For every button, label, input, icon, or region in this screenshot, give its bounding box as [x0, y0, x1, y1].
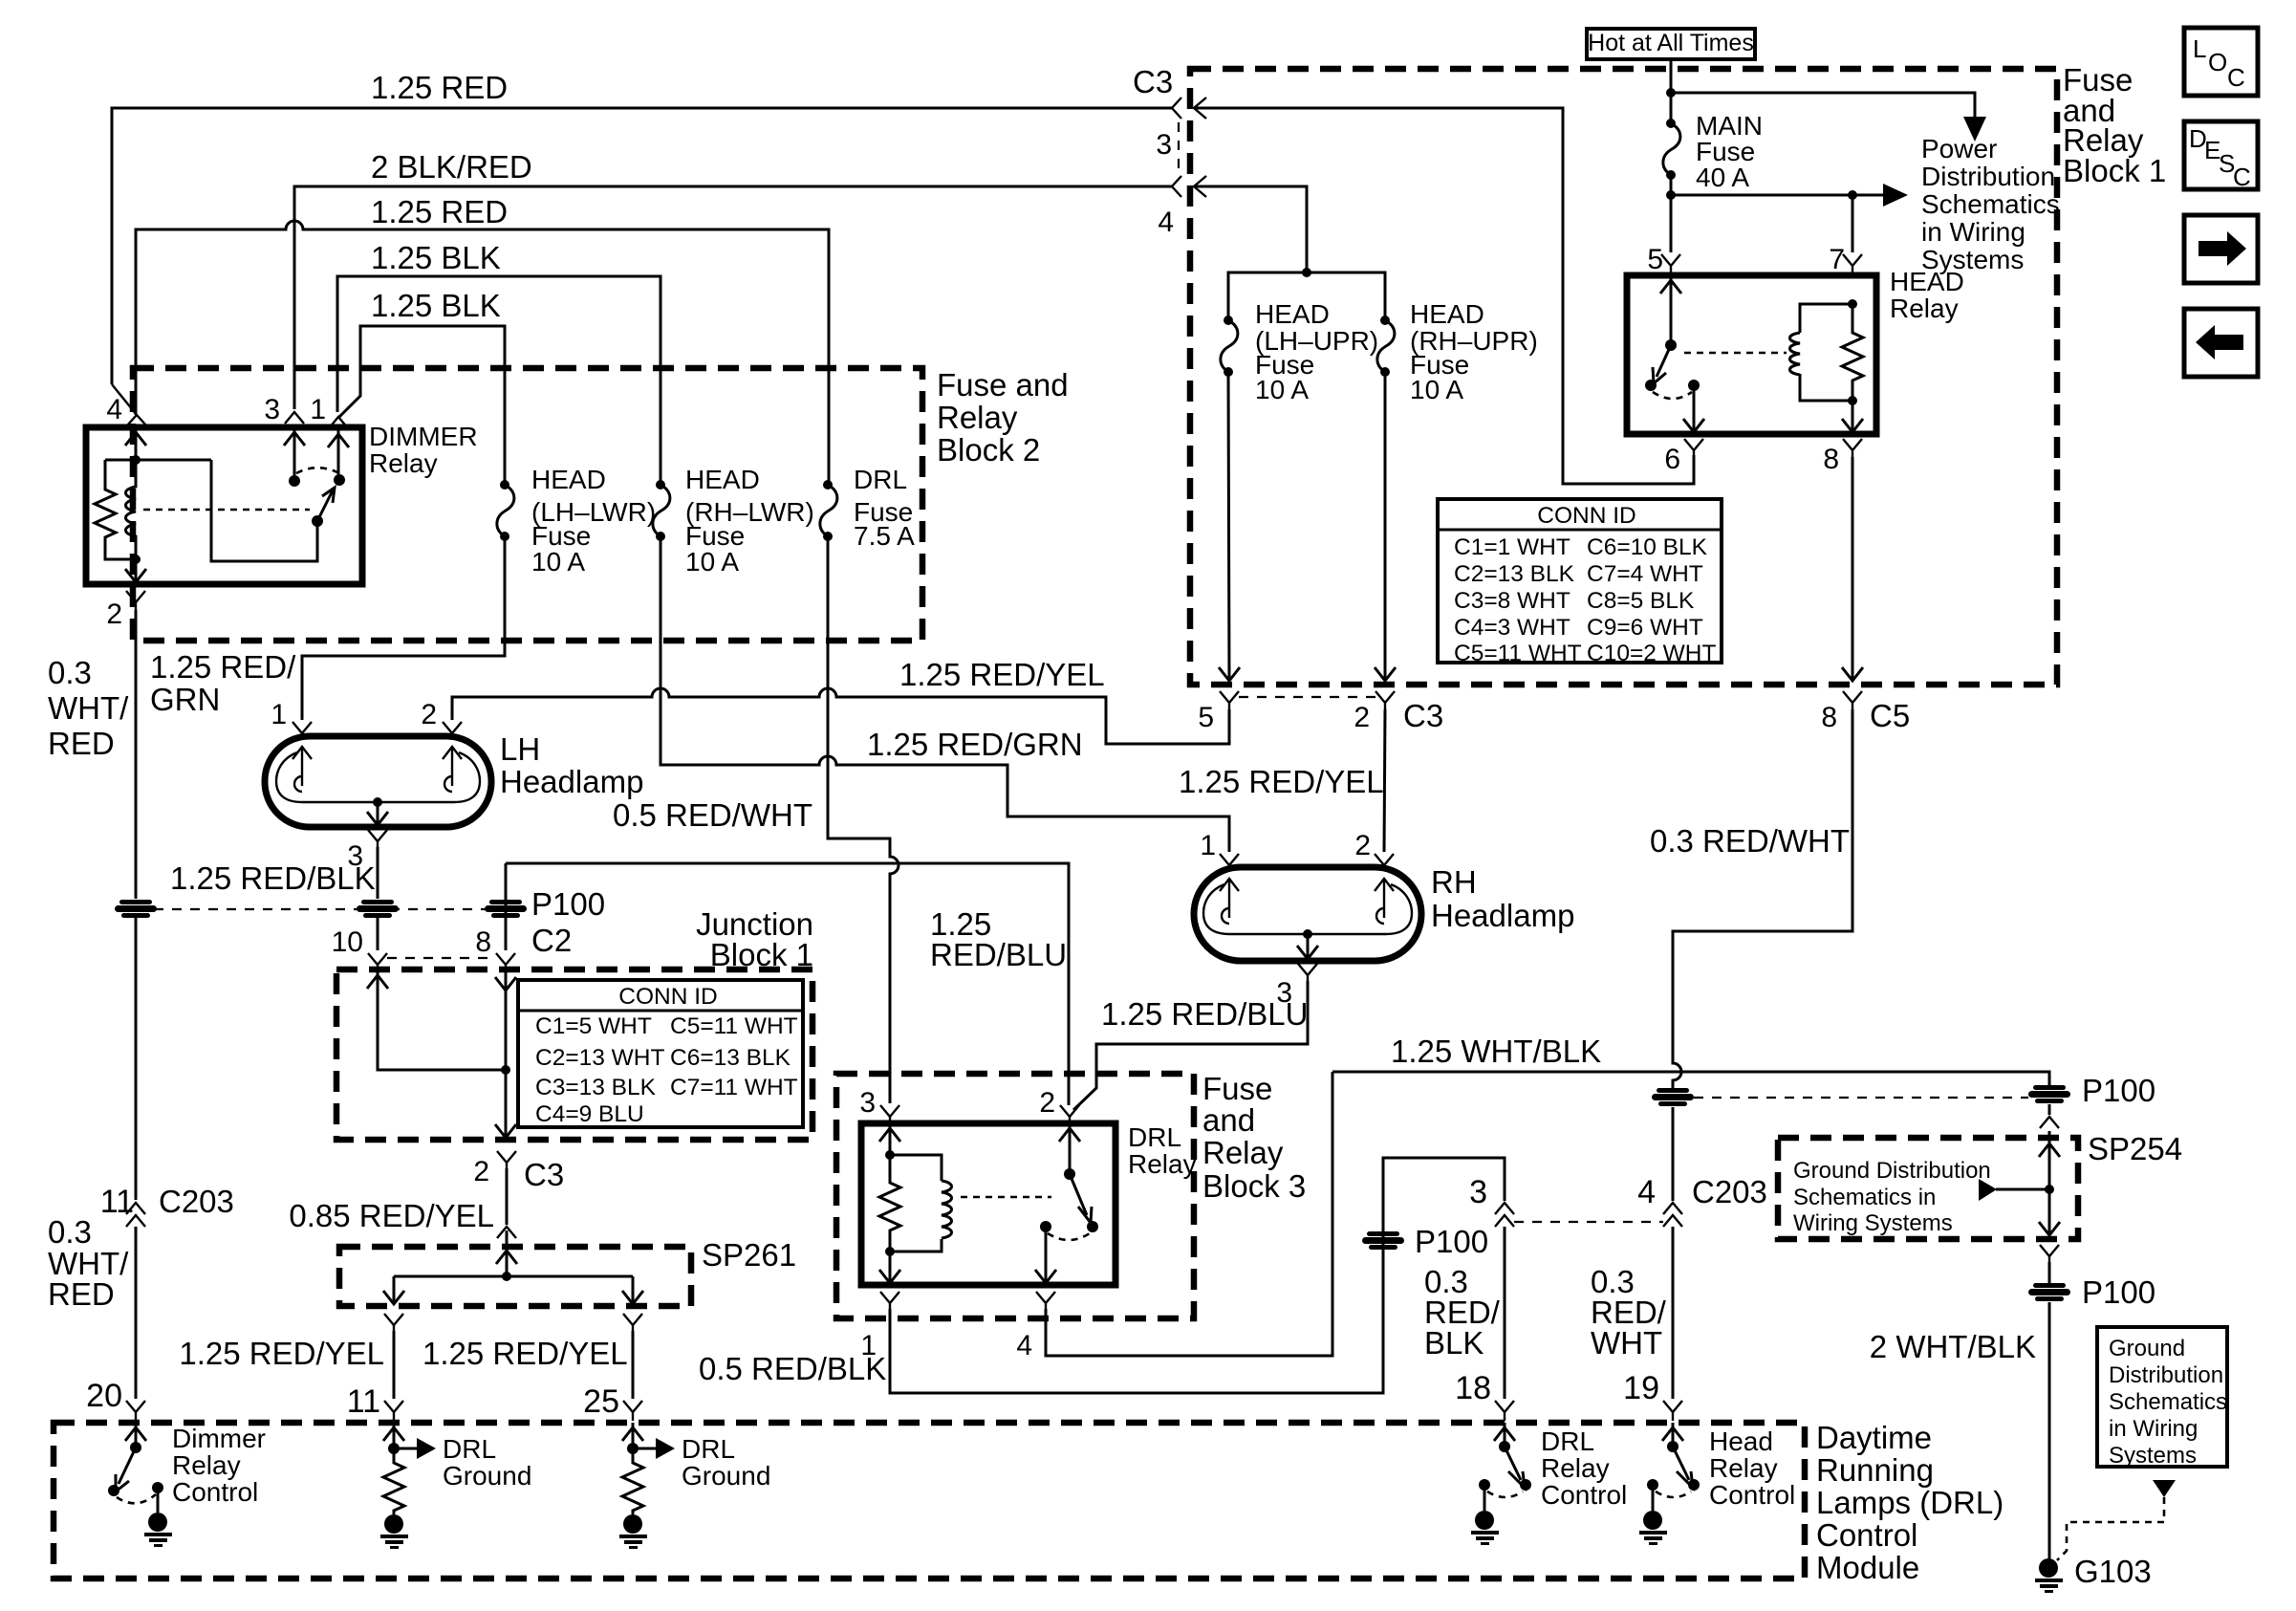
- svg-text:2: 2: [1354, 830, 1371, 861]
- connector C3 alignment dashes: [1178, 122, 1180, 172]
- RH headlamp pin1 female connector: [1220, 854, 1239, 870]
- svg-text:C9=6 WHT: C9=6 WHT: [1587, 615, 1703, 641]
- ground head relay control: [1639, 1511, 1667, 1545]
- dimmer relay resistor R: [95, 460, 136, 559]
- wire into SP261: [506, 1230, 509, 1276]
- wire 1.25 WHT/BLK DRL relay pin4 riser: [1046, 1072, 1332, 1356]
- wire W2 2 BLK/RED horizontal: [294, 186, 1172, 409]
- svg-text:C8=5 BLK: C8=5 BLK: [1587, 588, 1695, 614]
- node hot feed junction: [1666, 88, 1676, 98]
- head relay fixed contact dot: [1645, 380, 1657, 391]
- module head relay control pivot dot: [1667, 1441, 1679, 1452]
- svg-text:Relay: Relay: [1128, 1149, 1197, 1179]
- wire 0.3 WHT/RED dimmer pin2 down left column: [135, 610, 138, 899]
- svg-text:HEAD: HEAD: [1255, 299, 1330, 329]
- splice SP261 entry chevron: [497, 1227, 516, 1238]
- module head relay control fixed dot: [1647, 1479, 1658, 1491]
- svg-text:C: C: [2227, 63, 2245, 92]
- LH headlamp pin2 female connector: [443, 722, 462, 738]
- wire RED/WHT below grommet to C203 pin4: [1672, 1107, 1675, 1201]
- grommet P100 right on pin8 C2 wire: [485, 900, 527, 918]
- svg-text:Schematics: Schematics: [1921, 189, 2060, 219]
- svg-text:0.3: 0.3: [48, 655, 92, 690]
- head relay pin6 female connector: [1684, 439, 1703, 457]
- junction block internal wire pin10: [367, 969, 507, 1070]
- SP261 junction dot: [502, 1272, 511, 1281]
- RH headlamp common node: [1303, 929, 1312, 939]
- svg-text:C10=2 WHT: C10=2 WHT: [1587, 641, 1717, 666]
- svg-text:Hot at All Times: Hot at All Times: [1588, 30, 1754, 56]
- resistor pin25 to ground: [622, 1448, 643, 1514]
- head relay contact dashed arc: [1653, 392, 1692, 399]
- module DRL relay control moving dot: [1520, 1479, 1531, 1491]
- svg-text:10 A: 10 A: [531, 547, 585, 577]
- svg-text:DRL: DRL: [1128, 1122, 1181, 1152]
- grommet P100 on RED/WHT drop: [1652, 1088, 1694, 1106]
- module pin20 entry arrow: [125, 1423, 146, 1448]
- svg-text:P100: P100: [2082, 1073, 2155, 1108]
- Fuse and Relay Block 3 dashed box: [836, 1074, 1194, 1318]
- svg-text:C2=13 WHT: C2=13 WHT: [535, 1045, 665, 1071]
- svg-text:and: and: [1202, 1102, 1255, 1138]
- svg-text:DRL: DRL: [443, 1434, 496, 1464]
- ground DRL pin25: [619, 1514, 647, 1549]
- svg-text:HEAD: HEAD: [1410, 299, 1484, 329]
- wire main output to right arrow: [1671, 194, 1885, 197]
- svg-text:3: 3: [1156, 129, 1172, 161]
- svg-text:Relay: Relay: [937, 400, 1018, 435]
- LH headlamp filament arrows: [292, 747, 462, 786]
- svg-text:1.25 RED/YEL: 1.25 RED/YEL: [179, 1336, 384, 1371]
- svg-text:C6=10 BLK: C6=10 BLK: [1587, 534, 1708, 560]
- head relay mechanical linkage dashed: [1684, 352, 1787, 355]
- svg-text:2 WHT/BLK: 2 WHT/BLK: [1870, 1329, 2036, 1364]
- head relay coil L: [1790, 333, 1801, 375]
- svg-text:4: 4: [1158, 207, 1174, 238]
- svg-text:P100: P100: [531, 886, 605, 922]
- svg-text:C5=11 WHT: C5=11 WHT: [670, 1013, 798, 1039]
- SP254 entry arrow: [2039, 1143, 2060, 1157]
- svg-text:0.3: 0.3: [48, 1214, 92, 1250]
- svg-text:Block 2: Block 2: [937, 432, 1040, 468]
- head relay pin8 female connector: [1843, 439, 1862, 457]
- svg-text:RED: RED: [48, 726, 115, 761]
- connector C203 pin4 chevrons: [1663, 1203, 1682, 1227]
- svg-text:C1=5 WHT: C1=5 WHT: [535, 1013, 652, 1039]
- grommet P100 center on RED/BLK wire: [357, 900, 399, 918]
- dimmer relay switch return path: [211, 460, 317, 561]
- svg-text:C6=13 BLK: C6=13 BLK: [670, 1045, 791, 1071]
- DRL relay U3 box: [861, 1123, 1116, 1285]
- wire W3 1.25 RED with hop over pin3 wire: [136, 221, 829, 485]
- svg-text:CONN ID: CONN ID: [618, 984, 717, 1010]
- wire 1.25 RED/YEL LH pin2 to C3 pin5: [452, 688, 1229, 744]
- module head relay control ground wire: [1652, 1485, 1655, 1511]
- fuse bus from 2 BLK/RED: [1302, 268, 1311, 277]
- svg-text:Ground Distribution: Ground Distribution: [1793, 1158, 1991, 1184]
- svg-text:C: C: [2233, 163, 2251, 191]
- svg-text:Head: Head: [1709, 1426, 1773, 1456]
- Hot at All Times box: [1587, 29, 1755, 59]
- svg-text:DIMMER: DIMMER: [369, 422, 478, 451]
- module pin20 chevron: [126, 1401, 145, 1421]
- CONN ID table block1: [1438, 499, 1722, 666]
- module pin25 chevron: [623, 1401, 642, 1421]
- svg-text:0.3 RED/WHT: 0.3 RED/WHT: [1650, 823, 1850, 859]
- svg-text:DRL: DRL: [682, 1434, 735, 1464]
- wire into SP254: [2048, 1104, 2051, 1189]
- svg-text:Relay: Relay: [172, 1450, 241, 1480]
- svg-text:6: 6: [1664, 444, 1680, 475]
- DRL relay pin2 entry arrow: [1059, 1123, 1080, 1174]
- svg-text:40 A: 40 A: [1696, 163, 1749, 192]
- DRL relay coil branch: [890, 1155, 942, 1252]
- dimmer relay pin 3 contact dot: [289, 475, 300, 487]
- svg-text:Fuse and: Fuse and: [937, 367, 1069, 403]
- svg-text:8: 8: [1823, 444, 1839, 475]
- svg-text:3: 3: [1469, 1174, 1487, 1210]
- dimmer relay pin 2 female connector: [126, 591, 145, 610]
- dimmer relay pin 1 female connector: [329, 417, 348, 428]
- svg-text:5: 5: [1198, 702, 1214, 733]
- svg-text:Schematics: Schematics: [2109, 1389, 2227, 1415]
- svg-text:Headlamp: Headlamp: [500, 764, 643, 799]
- svg-text:P100: P100: [1415, 1224, 1488, 1259]
- dimmer relay pin 4 entry arrow: [125, 427, 146, 460]
- svg-text:1.25 RED/: 1.25 RED/: [150, 649, 296, 685]
- svg-text:CONN ID: CONN ID: [1537, 503, 1635, 529]
- svg-text:Wiring Systems: Wiring Systems: [1793, 1210, 1953, 1236]
- module DRL relay control dashed arc: [1487, 1491, 1523, 1497]
- DRL ground arrow pin25: [633, 1448, 656, 1450]
- svg-text:1.25 RED/BLK: 1.25 RED/BLK: [170, 860, 376, 896]
- svg-text:C4=9 BLU: C4=9 BLU: [535, 1101, 644, 1127]
- module dimmer switch pivot dot: [130, 1442, 141, 1453]
- svg-text:Distribution: Distribution: [1921, 162, 2055, 191]
- svg-text:C3=8 WHT: C3=8 WHT: [1454, 588, 1570, 614]
- svg-text:WHT: WHT: [1591, 1325, 1662, 1361]
- head relay coil branch: [1800, 304, 1852, 401]
- wire RH-UPR fuse output exits block1: [1375, 372, 1396, 681]
- LH headlamp pin3 exit arrow: [367, 802, 388, 825]
- svg-text:5: 5: [1647, 244, 1663, 275]
- svg-text:GRN: GRN: [150, 682, 220, 717]
- svg-text:Dimmer: Dimmer: [172, 1424, 266, 1453]
- svg-text:C7=11 WHT: C7=11 WHT: [670, 1075, 798, 1100]
- svg-text:C5: C5: [1870, 698, 1910, 733]
- svg-text:10 A: 10 A: [685, 547, 739, 577]
- fuse HEAD (RH-LWR) 10A: [653, 480, 670, 541]
- DRL relay pin3 entry arrow: [879, 1123, 900, 1155]
- svg-text:11: 11: [100, 1184, 134, 1220]
- svg-text:Relay: Relay: [1541, 1453, 1610, 1483]
- node main output junction: [1666, 190, 1676, 200]
- module head relay control switch arm: [1673, 1447, 1693, 1488]
- ground DRL pin11: [380, 1514, 408, 1549]
- dimmer relay pin 4 connector: [112, 384, 146, 425]
- SP254 junction dot: [2045, 1185, 2054, 1194]
- wire LH-UPR fuse output exits block1: [1219, 372, 1240, 681]
- fuse DRL 7.5A: [820, 480, 837, 541]
- wire W1 right segment to HEAD relay pin 6: [1197, 108, 1694, 484]
- module pin18 entry arrow: [1494, 1423, 1515, 1447]
- svg-text:7.5 A: 7.5 A: [854, 521, 915, 551]
- head relay resistor R: [1842, 304, 1863, 401]
- svg-text:0.5 RED/BLK: 0.5 RED/BLK: [699, 1351, 886, 1386]
- svg-text:Module: Module: [1816, 1550, 1919, 1585]
- svg-text:P100: P100: [2082, 1274, 2155, 1310]
- svg-text:Running: Running: [1816, 1452, 1934, 1488]
- SP261 internal tee wire: [383, 1276, 643, 1304]
- svg-text:Relay: Relay: [1709, 1453, 1778, 1483]
- dimmer relay pin 3 entry arrow: [284, 427, 305, 481]
- svg-text:C1=1 WHT: C1=1 WHT: [1454, 534, 1570, 560]
- svg-text:Control: Control: [1541, 1480, 1627, 1510]
- svg-text:Ground: Ground: [682, 1461, 770, 1491]
- dimmer relay moving contact dot: [312, 515, 323, 527]
- svg-text:2: 2: [421, 699, 437, 730]
- svg-text:Block 1: Block 1: [2063, 153, 2166, 188]
- RH headlamp filament hooks: [1222, 908, 1384, 924]
- wire 1.25 RED/BLU junction pin8 to DRL relay pin2: [506, 863, 1069, 1105]
- module pin11 entry arrow: [383, 1423, 404, 1448]
- module pin11 node dot: [388, 1443, 400, 1454]
- svg-text:Block 1: Block 1: [710, 937, 813, 972]
- DRL relay moving contact dot: [1087, 1221, 1098, 1232]
- connector C3 pin3 male arrow: [1194, 98, 1206, 119]
- splice SP261 dashed box: [339, 1247, 691, 1306]
- wire 2 WHT/BLK to G103: [2048, 1302, 2051, 1560]
- module DRL relay control switch arm: [1505, 1447, 1525, 1488]
- wire 1.25 WHT/BLK horizontal: [1332, 1072, 2049, 1088]
- svg-text:Lamps (DRL): Lamps (DRL): [1816, 1485, 2004, 1520]
- fuse MAIN 40A: [1663, 119, 1680, 180]
- svg-text:Relay: Relay: [369, 448, 438, 478]
- DRL relay switch pivot dot: [1064, 1168, 1075, 1180]
- dimmer relay pin 2 exit arrow: [125, 559, 146, 582]
- dimmer relay pin 1 contact dot: [334, 474, 345, 486]
- wire 0.5 RED/WHT DRL fuse to DRL relay pin3: [828, 536, 899, 1103]
- module DRL relay control ground wire: [1484, 1485, 1486, 1511]
- svg-text:18: 18: [1455, 1370, 1491, 1406]
- wire W5 1.25 BLK: [338, 326, 505, 485]
- LH headlamp pin1 female connector: [292, 722, 312, 738]
- RH headlamp inner envelope: [1203, 884, 1412, 934]
- svg-text:Schematics in: Schematics in: [1793, 1185, 1936, 1210]
- LH headlamp inner envelope: [276, 752, 480, 802]
- node pin7 tap: [1848, 190, 1857, 200]
- svg-text:11: 11: [347, 1383, 380, 1420]
- grommet P100 on 0.5 RED/BLK riser: [1362, 1231, 1404, 1250]
- svg-text:C3: C3: [524, 1157, 564, 1192]
- DRL relay mechanical linkage dashed: [961, 1196, 1051, 1199]
- svg-text:G103: G103: [2074, 1554, 2152, 1589]
- svg-text:1.25 RED/BLU: 1.25 RED/BLU: [1101, 996, 1308, 1032]
- wire pin8 C2 from corner through P100: [505, 863, 508, 950]
- svg-text:1: 1: [1200, 830, 1216, 861]
- svg-text:C3: C3: [1133, 64, 1173, 99]
- DRL relay pin4 female connector: [1036, 1292, 1055, 1309]
- splice SP254 dashed box: [1778, 1138, 2078, 1239]
- head relay switch pivot dot: [1665, 339, 1677, 351]
- svg-text:SP254: SP254: [2088, 1131, 2182, 1166]
- svg-text:8: 8: [1821, 702, 1837, 733]
- wire to power distribution top arrow: [1671, 93, 1975, 120]
- svg-text:1.25 WHT/BLK: 1.25 WHT/BLK: [1391, 1034, 1601, 1069]
- svg-text:1.25 BLK: 1.25 BLK: [371, 288, 501, 323]
- connector C203 pin3 chevrons: [1495, 1203, 1514, 1227]
- SP254 branch wire with arrow: [1996, 1188, 2049, 1191]
- svg-text:4: 4: [106, 394, 122, 425]
- svg-text:20: 20: [86, 1378, 122, 1414]
- DESC legend box: [2184, 121, 2258, 189]
- wire 1.25 RED/YEL to module pin11: [393, 1331, 396, 1399]
- RH headlamp pin3 female connector: [1298, 964, 1317, 981]
- dimmer relay pin 1 entry arrow: [328, 430, 349, 480]
- svg-text:4: 4: [1637, 1174, 1656, 1210]
- wire RH-UPR output to RH headlamp pin2: [1384, 709, 1385, 852]
- junction block pin10 female connector: [368, 953, 387, 969]
- connector C3 pin3 female chevron: [1172, 98, 1181, 119]
- SP254 entry chevron: [2040, 1117, 2059, 1128]
- dimmer relay U1 box: [86, 427, 362, 584]
- svg-text:in Wiring: in Wiring: [1921, 217, 2025, 247]
- svg-text:O: O: [2208, 48, 2227, 76]
- DRL relay pin1 female connector: [880, 1292, 899, 1309]
- connector C3 pin2 female: [1375, 691, 1395, 709]
- wire 0.85 RED/YEL: [506, 1168, 509, 1225]
- wire 0.3 RED/WHT to module pin19: [1672, 1227, 1675, 1399]
- svg-text:3: 3: [264, 394, 280, 425]
- RH headlamp lamp body: [1194, 867, 1421, 961]
- connector C5 pin8 female: [1843, 691, 1862, 709]
- connector C3 bottom alignment dashes: [1239, 696, 1375, 698]
- module head relay control dashed arc: [1656, 1491, 1691, 1497]
- grommet P100 top right: [2028, 1085, 2070, 1103]
- svg-text:DRL: DRL: [854, 465, 907, 494]
- connector C203 left chevrons: [126, 1203, 145, 1227]
- DRL relay pin2 female connector: [1060, 1105, 1079, 1121]
- svg-text:1.25 RED/YEL: 1.25 RED/YEL: [422, 1336, 628, 1371]
- svg-text:7: 7: [1829, 244, 1845, 275]
- wire MAIN fuse output: [1670, 175, 1673, 252]
- dimmer relay bottom junction: [131, 555, 141, 564]
- SP261 right exit female connector: [623, 1314, 642, 1331]
- wire fuse bus: [1228, 272, 1385, 320]
- dimmer relay coil L: [126, 460, 137, 559]
- module pin19 entry arrow: [1662, 1423, 1683, 1447]
- connector pin2 C3 below junction block: [497, 1151, 516, 1168]
- left arrow legend box: [2184, 309, 2258, 377]
- svg-text:C5=11 WHT: C5=11 WHT: [1454, 641, 1582, 666]
- wire W4 1.25 BLK: [337, 276, 661, 485]
- svg-text:C4=3 WHT: C4=3 WHT: [1454, 615, 1570, 641]
- wire W2 right segment to fuse bus: [1197, 186, 1307, 272]
- junction block pin8 female connector: [496, 953, 515, 969]
- svg-text:Ground: Ground: [443, 1461, 531, 1491]
- svg-text:HEAD: HEAD: [531, 465, 606, 494]
- DRL relay coil L: [942, 1181, 952, 1238]
- svg-text:BLK: BLK: [1424, 1325, 1484, 1361]
- LH headlamp lamp body: [265, 736, 491, 827]
- module dimmer second contact dot: [152, 1482, 163, 1493]
- RH headlamp pin3 exit arrow: [1297, 934, 1318, 959]
- svg-text:Control: Control: [172, 1477, 258, 1507]
- svg-text:1.25 RED/YEL: 1.25 RED/YEL: [899, 657, 1105, 692]
- svg-text:2: 2: [106, 599, 122, 630]
- svg-text:2: 2: [1354, 702, 1370, 733]
- svg-text:1.25 RED/GRN: 1.25 RED/GRN: [867, 727, 1083, 762]
- module pin11 chevron: [384, 1401, 403, 1421]
- resistor pin11 to ground: [383, 1448, 404, 1514]
- svg-text:in Wiring: in Wiring: [2109, 1416, 2198, 1442]
- svg-text:1.25 RED/YEL: 1.25 RED/YEL: [1179, 764, 1384, 799]
- DRL relay coil top node: [885, 1150, 895, 1160]
- svg-text:C2: C2: [531, 923, 572, 958]
- module dimmer switch arm: [116, 1448, 136, 1491]
- fuse HEAD (RH-UPR) 10A: [1377, 316, 1395, 377]
- svg-text:Control: Control: [1816, 1517, 1917, 1553]
- svg-text:1.25 RED: 1.25 RED: [371, 194, 508, 229]
- DRL ground arrow pin11: [394, 1448, 417, 1450]
- connector C203 alignment dashes: [1514, 1221, 1663, 1223]
- dimmer relay top branch wires: [105, 459, 211, 462]
- RH headlamp filament arrows: [1220, 879, 1394, 918]
- HEAD relay U2 box: [1627, 275, 1876, 434]
- Junction Block 1 dashed box: [336, 969, 812, 1140]
- head relay coil bottom node: [1848, 396, 1857, 405]
- connector C3 pin4 female chevron: [1172, 176, 1181, 197]
- DRL control module dashed box: [54, 1423, 1805, 1578]
- Fuse and Relay Block 2 dashed box: [133, 368, 922, 641]
- head relay pin5 female connector: [1661, 254, 1680, 272]
- svg-text:Control: Control: [1709, 1480, 1795, 1510]
- svg-text:C7=4 WHT: C7=4 WHT: [1587, 561, 1703, 587]
- svg-text:HEAD: HEAD: [1890, 267, 1964, 296]
- grommet P100 left on 0.3 WHT/RED wire: [115, 900, 157, 918]
- svg-text:DRL: DRL: [1541, 1426, 1594, 1456]
- module pin19 chevron: [1663, 1401, 1682, 1421]
- DRL relay pin4 exit arrow: [1035, 1227, 1056, 1283]
- svg-text:19: 19: [1623, 1370, 1659, 1406]
- LH headlamp filament hooks: [294, 776, 452, 792]
- svg-text:WHT/: WHT/: [48, 690, 129, 726]
- CONN ID table junction block: [518, 980, 803, 1127]
- wire 1.25 RED/GRN RH-LWR fuse to RH pin1: [661, 536, 1229, 852]
- module dimmer contact dashed arc: [117, 1494, 156, 1503]
- wire 1.25 RED/GRN from LH-LWR fuse to LH headlamp pin1: [302, 536, 505, 720]
- dimmer relay contact dashed arc: [296, 468, 337, 473]
- svg-text:4: 4: [1016, 1330, 1032, 1361]
- wire W1 1.25 RED horizontal: [112, 108, 1172, 384]
- svg-text:2: 2: [473, 1156, 489, 1187]
- SP254 exit arrow: [2039, 1189, 2060, 1235]
- module pin25 node dot: [627, 1443, 639, 1454]
- svg-text:C2=13 BLK: C2=13 BLK: [1454, 561, 1575, 587]
- svg-text:25: 25: [583, 1383, 619, 1420]
- svg-text:L: L: [2193, 34, 2206, 63]
- svg-text:Headlamp: Headlamp: [1431, 898, 1574, 933]
- arrow power distribution down: [1963, 117, 1986, 142]
- DRL relay resistor R: [879, 1155, 900, 1252]
- svg-text:2 BLK/RED: 2 BLK/RED: [371, 149, 532, 185]
- head relay pin8 exit arrow: [1842, 401, 1863, 432]
- connector C2 alignment dashes: [387, 957, 496, 959]
- dimmer relay switch arm with arrowhead: [317, 488, 335, 521]
- head relay second contact dot: [1688, 380, 1700, 391]
- svg-text:3: 3: [859, 1087, 876, 1119]
- wire hot feed down to MAIN fuse: [1670, 59, 1673, 123]
